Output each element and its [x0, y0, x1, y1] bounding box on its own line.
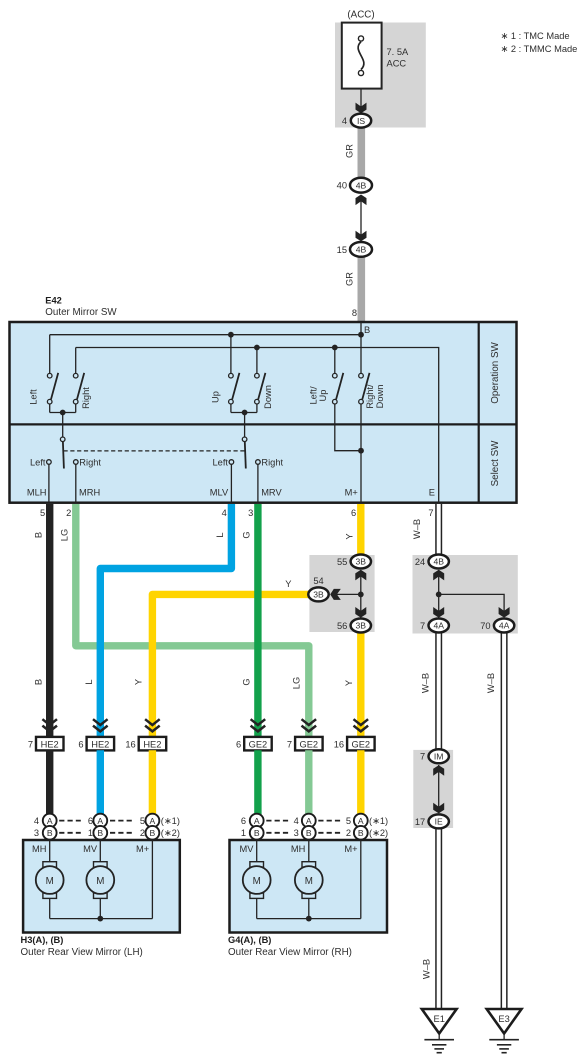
svg-text:54: 54 [313, 576, 323, 586]
svg-text:1: 1 [241, 828, 246, 838]
bus2 horizontal to pin E [76, 348, 439, 503]
svg-text:A: A [150, 816, 156, 826]
svg-text:Y: Y [344, 680, 354, 686]
svg-text:MRV: MRV [261, 488, 282, 498]
H3 bottom bus [50, 918, 153, 920]
svg-text:Y: Y [344, 533, 354, 539]
G4 wire MH to motor [308, 840, 310, 862]
G4 pin row dashes B [266, 832, 289, 834]
svg-text:W–B: W–B [486, 673, 496, 693]
thin link IM to IE [438, 765, 440, 813]
svg-text:Y: Y [134, 679, 144, 685]
G4 pin row dashes A [266, 820, 289, 822]
svg-text:3B: 3B [356, 557, 367, 567]
svg-text:(∗2): (∗2) [369, 828, 388, 838]
wire fuse to IS [360, 89, 362, 108]
switch Left/Up [309, 348, 344, 405]
H3 pin 1 B [88, 826, 107, 840]
svg-text:G4(A), (B): G4(A), (B) [228, 935, 271, 945]
svg-text:7: 7 [28, 739, 33, 749]
ground E3 [487, 1009, 522, 1053]
svg-text:5: 5 [40, 508, 45, 518]
svg-text:Outer Rear View Mirror (LH): Outer Rear View Mirror (LH) [21, 947, 143, 958]
svg-text:56: 56 [337, 621, 347, 631]
svg-text:A: A [97, 816, 103, 826]
G4 mirror component box [230, 840, 388, 933]
junction connector 3B shaded area [309, 555, 374, 632]
svg-text:B: B [254, 828, 260, 838]
wire Y HE2 to pin A [149, 750, 156, 820]
H3 motor MH [36, 862, 64, 919]
G4 motor MV [243, 862, 271, 919]
svg-text:GR: GR [345, 144, 355, 158]
svg-text:GE2: GE2 [249, 739, 268, 749]
svg-text:4A: 4A [499, 621, 510, 631]
wire G from MRV to GE2 6 [254, 504, 261, 737]
svg-text:M: M [96, 876, 104, 887]
svg-text:7: 7 [428, 508, 433, 518]
svg-text:MH: MH [291, 844, 305, 854]
svg-text:4B: 4B [356, 245, 367, 255]
ground E1 [422, 1009, 457, 1053]
wire L from MLV to HE2 [100, 504, 231, 737]
G4 pin 2 B [346, 826, 368, 840]
wire B HE2 to pin A [46, 750, 53, 820]
junction dot bus2 at Left/Up switch [332, 345, 338, 351]
wire W-B from 70 4A to ground E3 [501, 628, 508, 1010]
connector 7 IM [420, 749, 449, 763]
wire L HE2 to pin A [97, 750, 104, 820]
chevron arrow into GE2 7 [302, 719, 317, 731]
chevron arrow into HE2 16 [145, 719, 160, 731]
H3 mirror component box [23, 840, 180, 933]
svg-text:Left: Left [212, 457, 228, 467]
E42 component box [10, 322, 517, 503]
junction connector IM/IE shaded area [413, 750, 453, 828]
svg-text:2: 2 [346, 828, 351, 838]
G4 pin 3 B [294, 826, 316, 840]
svg-text:6: 6 [241, 816, 246, 826]
connector 17 IE [415, 814, 449, 828]
svg-text:2: 2 [66, 508, 71, 518]
wire GR from fuse to connector 40 4B [358, 120, 366, 182]
svg-text:Down: Down [263, 385, 273, 409]
svg-text:(∗1): (∗1) [369, 816, 388, 826]
wire Y from 56 3B to GE2 16 [357, 626, 364, 737]
svg-text:Outer Rear View Mirror (RH): Outer Rear View Mirror (RH) [228, 947, 352, 958]
svg-text:Right: Right [79, 457, 101, 467]
svg-text:Up: Up [211, 391, 221, 403]
svg-text:LG: LG [292, 677, 302, 689]
svg-text:Right/: Right/ [365, 384, 375, 409]
svg-text:GE2: GE2 [299, 739, 318, 749]
thin link 24 4B to 4A pair [438, 570, 440, 618]
svg-text:L: L [215, 532, 225, 537]
svg-text:GR: GR [345, 272, 355, 286]
switch Right/Down [359, 335, 385, 409]
arrow down toward 70 4A [499, 607, 510, 618]
svg-text:2: 2 [140, 828, 145, 838]
wire GR from connector 15 4B to E42 pin 8 [358, 250, 366, 323]
svg-text:(∗2): (∗2) [161, 828, 180, 838]
svg-text:M: M [305, 876, 313, 887]
svg-text:B: B [97, 828, 103, 838]
svg-text:Outer Mirror SW: Outer Mirror SW [45, 307, 117, 318]
svg-text:HE2: HE2 [91, 739, 109, 749]
svg-text:G: G [242, 678, 252, 685]
switch Left [29, 335, 59, 413]
connector 40 4B [337, 178, 372, 193]
svg-text:7: 7 [420, 752, 425, 762]
G4 motor MH [295, 862, 323, 919]
svg-text:Down: Down [375, 385, 385, 409]
svg-text:B: B [34, 532, 44, 538]
svg-text:Operation SW: Operation SW [490, 341, 501, 403]
svg-text:6: 6 [88, 816, 93, 826]
svg-text:A: A [358, 816, 364, 826]
select blade LH [63, 442, 64, 469]
svg-text:MV: MV [83, 844, 98, 854]
H3 wire M+ to bottom bus [151, 840, 153, 919]
connector 56 3B [337, 619, 371, 633]
junction dot bus1 at Up switch [228, 332, 234, 338]
select switch pivot LH [60, 437, 65, 442]
G4 pin 5 A [346, 814, 368, 828]
H3 pin 3 B [34, 826, 57, 840]
svg-text:IS: IS [357, 116, 365, 126]
thin link 55 3B to 56 3B [360, 570, 362, 618]
svg-text:4: 4 [342, 116, 347, 126]
chevron arrow into GE2 6 [251, 719, 266, 731]
arrow down toward 7 4A [433, 607, 444, 618]
connector 7 4A [420, 619, 449, 633]
svg-text:M+: M+ [344, 844, 357, 854]
svg-text:HE2: HE2 [143, 739, 161, 749]
svg-text:16: 16 [334, 739, 344, 749]
svg-text:6: 6 [236, 739, 241, 749]
H3 pin 5 A [140, 814, 159, 828]
svg-text:W–B: W–B [422, 959, 432, 979]
svg-text:B: B [150, 828, 156, 838]
svg-text:Left/: Left/ [309, 386, 319, 405]
svg-text:3B: 3B [313, 590, 324, 600]
thin link branch to 70 4A [439, 594, 504, 612]
arrow left toward 54 3B [330, 589, 341, 600]
svg-text:(ACC): (ACC) [347, 10, 374, 21]
svg-text:16: 16 [125, 739, 135, 749]
svg-text:E3: E3 [498, 1014, 509, 1024]
connector 55 3B [337, 555, 371, 569]
svg-text:IE: IE [435, 817, 443, 827]
svg-text:IM: IM [434, 752, 444, 762]
svg-text:7: 7 [287, 739, 292, 749]
svg-text:8: 8 [352, 308, 357, 318]
svg-text:4A: 4A [433, 621, 444, 631]
switch Up [211, 335, 240, 413]
svg-text:M: M [46, 876, 54, 887]
svg-text:40: 40 [337, 181, 347, 191]
svg-text:24: 24 [415, 557, 425, 567]
connector 15 4B [337, 242, 372, 257]
junction dot bus1 at Right/Down switch [358, 332, 364, 338]
connector box 6 HE2 [78, 737, 114, 751]
junction dot 4B [436, 592, 442, 598]
svg-text:B: B [34, 679, 44, 685]
wire W-B from 7 4A to IM [435, 628, 442, 752]
bus1 node B horizontal [50, 334, 361, 336]
wire W-B from E pin to 24 4B [435, 504, 442, 560]
svg-text:Right: Right [261, 457, 283, 467]
wire Left/Right pair junction [50, 412, 76, 414]
svg-text:MRH: MRH [79, 488, 100, 498]
H3 pin row dashes A [59, 820, 81, 822]
arrow up toward 40 4B [356, 195, 367, 206]
svg-text:M: M [253, 876, 261, 887]
svg-text:7: 7 [420, 621, 425, 631]
arrow up toward 24 4B [433, 570, 444, 581]
wire W-B from IE to ground E1 [435, 824, 442, 1010]
G4 wire MV to motor [256, 840, 258, 862]
svg-text:Left: Left [30, 457, 46, 467]
svg-text:5: 5 [346, 816, 351, 826]
svg-text:3B: 3B [356, 621, 367, 631]
H3 pin 4 A [34, 814, 57, 828]
wire Y from M+ to 55 3B [357, 504, 364, 560]
svg-text:4B: 4B [356, 180, 367, 190]
svg-text:B: B [47, 828, 53, 838]
connector box 7 GE2 [287, 737, 323, 751]
svg-text:Right: Right [81, 387, 91, 409]
svg-text:B: B [306, 828, 312, 838]
select contact Right (MRV) [256, 457, 284, 502]
E42 operation/select divider [10, 423, 517, 425]
junction dot bus2 at Down switch [254, 345, 260, 351]
svg-text:6: 6 [351, 508, 356, 518]
E42 label column divider [478, 322, 480, 503]
svg-text:6: 6 [78, 739, 83, 749]
wire Left/Up output to M+ [335, 404, 361, 451]
arrow down into IS [356, 103, 367, 114]
svg-text:A: A [254, 816, 260, 826]
connector box 7 HE2 [28, 737, 64, 751]
arrow up toward 55 3B [355, 570, 366, 581]
svg-text:B: B [358, 828, 364, 838]
svg-text:1: 1 [88, 828, 93, 838]
svg-text:MV: MV [240, 844, 255, 854]
fuse 7.5A ACC [342, 23, 382, 89]
H3 motor MV [86, 862, 114, 919]
select blade RH [245, 442, 246, 469]
svg-text:MLV: MLV [210, 488, 229, 498]
arrow down toward 56 3B [355, 607, 366, 618]
svg-text:A: A [306, 816, 312, 826]
svg-text:3: 3 [294, 828, 299, 838]
connector 54 3B [308, 576, 328, 601]
thin link to 54 3B [334, 593, 361, 595]
fuse block shaded area [335, 23, 426, 128]
svg-text:E1: E1 [434, 1014, 445, 1024]
svg-text:∗ 1 : TMC Made: ∗ 1 : TMC Made [501, 31, 570, 41]
svg-text:M+: M+ [136, 844, 149, 854]
select contact Left (MLH) [30, 457, 51, 502]
chevron arrow into HE2 6 [93, 719, 108, 731]
svg-text:4: 4 [222, 508, 227, 518]
svg-text:4B: 4B [433, 557, 444, 567]
svg-text:L: L [84, 679, 94, 684]
G4 pin 6 A [241, 814, 264, 828]
connector box 16 GE2 [334, 737, 375, 751]
junction dot M+ [358, 448, 364, 454]
svg-text:17: 17 [415, 817, 425, 827]
svg-text:70: 70 [480, 621, 490, 631]
connector 24 4B [415, 555, 449, 569]
svg-text:W–B: W–B [412, 519, 422, 539]
select contact Left (MLV) [212, 457, 233, 502]
chevron arrow into HE2 7 [42, 719, 57, 731]
wire LG from MRH to GE2 [76, 504, 309, 737]
mechanical coupling dashed link [64, 450, 246, 452]
arrow down toward 15 4B [356, 231, 367, 242]
svg-text:3: 3 [34, 828, 39, 838]
G4 wire M+ to bottom bus [360, 840, 362, 919]
svg-text:∗ 2 : TMMC Made: ∗ 2 : TMMC Made [501, 44, 578, 54]
select switch pivot RH [242, 437, 247, 442]
switch Right [73, 348, 90, 413]
svg-text:ACC: ACC [387, 59, 407, 69]
svg-text:5: 5 [140, 816, 145, 826]
svg-text:4: 4 [294, 816, 299, 826]
connector box 16 HE2 [125, 737, 166, 751]
wire LG GE2 to pin A [305, 750, 312, 820]
svg-text:4: 4 [34, 816, 39, 826]
H3 wire MV to motor [99, 840, 101, 862]
wire Y from 54 3B to HE2 16 [152, 594, 314, 737]
arrow up toward 7 IM [433, 765, 444, 776]
svg-text:B: B [364, 325, 370, 335]
svg-text:(∗1): (∗1) [161, 816, 180, 826]
wire G GE2 to pin A [254, 750, 261, 820]
G4 pin 4 A [294, 814, 316, 828]
wire Right/Down output to M+ pin [360, 404, 362, 503]
svg-text:Y: Y [285, 579, 291, 589]
wire between 40 4B and 15 4B [360, 196, 362, 240]
connector 70 4A [480, 619, 514, 633]
svg-text:MH: MH [32, 844, 46, 854]
G4 pin 1 B [241, 826, 264, 840]
svg-text:15: 15 [337, 245, 347, 255]
svg-text:A: A [47, 816, 53, 826]
H3 pin row dashes B [59, 832, 81, 834]
switch Down [255, 348, 273, 413]
svg-text:3: 3 [248, 508, 253, 518]
svg-text:G: G [242, 531, 252, 538]
connector box 6 GE2 [236, 737, 272, 751]
arrow down toward 17 IE [433, 803, 444, 814]
connector 4 IS [342, 114, 371, 128]
svg-text:E: E [429, 488, 435, 498]
svg-text:Up: Up [318, 390, 328, 402]
svg-text:H3(A), (B): H3(A), (B) [21, 935, 64, 945]
svg-text:W–B: W–B [421, 673, 431, 693]
node B feed from pin 8 [360, 322, 362, 335]
select contact Right (MRH) [74, 457, 102, 502]
svg-text:Select SW: Select SW [490, 440, 501, 486]
H3 pin 2 B [140, 826, 159, 840]
wire B from MLH to HE2 7 [46, 504, 53, 737]
chevron arrow into GE2 16 [354, 719, 369, 731]
svg-text:MLH: MLH [27, 488, 47, 498]
H3 pin 6 A [88, 814, 107, 828]
svg-text:E42: E42 [45, 296, 62, 306]
svg-text:55: 55 [337, 557, 347, 567]
G4 bottom bus [257, 918, 361, 920]
wire Y GE2 to pin A [357, 750, 364, 820]
wire Up/Down pair junction [231, 412, 257, 414]
H3 wire MH to motor [49, 840, 51, 862]
svg-text:7. 5A: 7. 5A [387, 47, 410, 57]
svg-text:HE2: HE2 [41, 739, 59, 749]
svg-text:LG: LG [60, 529, 70, 541]
svg-text:Left: Left [29, 389, 39, 405]
svg-text:GE2: GE2 [351, 739, 370, 749]
junction connector 4B/4A shaded area [413, 555, 518, 634]
svg-text:M+: M+ [345, 488, 358, 498]
junction dot 3B [358, 592, 364, 598]
